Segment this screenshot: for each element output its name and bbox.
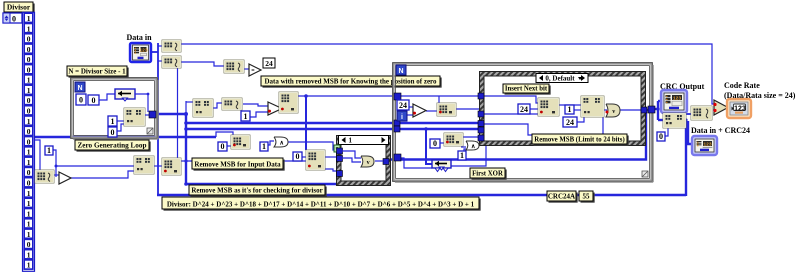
- svg-text:1: 1: [244, 112, 248, 121]
- svg-text:24: 24: [265, 59, 273, 68]
- svg-text:0, Default: 0, Default: [545, 75, 575, 83]
- svg-text:1: 1: [262, 142, 266, 151]
- svg-text:1: 1: [27, 76, 31, 85]
- svg-text:First XOR: First XOR: [472, 170, 503, 177]
- svg-text:1: 1: [460, 151, 464, 160]
- svg-text:Remove MSB for Input Data: Remove MSB for Input Data: [194, 160, 281, 168]
- svg-text:123: 123: [734, 106, 746, 113]
- svg-text:∧: ∧: [471, 144, 475, 150]
- svg-text:1: 1: [27, 199, 31, 208]
- svg-text:1: 1: [27, 250, 31, 259]
- svg-text:0: 0: [433, 139, 437, 148]
- svg-text:v: v: [367, 160, 370, 166]
- svg-text:55: 55: [583, 192, 591, 200]
- svg-text:v: v: [612, 109, 615, 115]
- svg-text:i: i: [401, 114, 403, 121]
- svg-text:123: 123: [673, 95, 682, 101]
- svg-text:0: 0: [12, 14, 16, 23]
- svg-text:1: 1: [27, 189, 31, 198]
- svg-text:1: 1: [27, 261, 31, 270]
- svg-text:1: 1: [27, 148, 31, 157]
- svg-text:0: 0: [296, 152, 300, 161]
- svg-text:0: 0: [27, 137, 31, 146]
- svg-text:0: 0: [27, 240, 31, 249]
- svg-text:N = Divisor Size - 1: N = Divisor Size - 1: [68, 67, 126, 75]
- svg-text:CRC24A: CRC24A: [548, 192, 575, 200]
- svg-text:0: 0: [27, 178, 31, 187]
- svg-text:1: 1: [568, 105, 572, 114]
- svg-text:1: 1: [27, 86, 31, 95]
- svg-text:Insert Next bit: Insert Next bit: [505, 85, 548, 92]
- svg-text:1: 1: [27, 220, 31, 229]
- svg-text:0: 0: [27, 96, 31, 105]
- svg-text:0: 0: [111, 128, 115, 137]
- svg-text:N: N: [77, 85, 82, 92]
- svg-text:1: 1: [27, 230, 31, 239]
- svg-text:0: 0: [659, 132, 663, 141]
- svg-text:Data with removed MSB for Know: Data with removed MSB for Knowing the po…: [264, 77, 437, 85]
- svg-text:0: 0: [27, 65, 31, 74]
- svg-text:=: =: [251, 69, 255, 75]
- svg-text:Data in + CRC24: Data in + CRC24: [691, 126, 750, 135]
- svg-text:∧: ∧: [279, 140, 283, 146]
- svg-text:Zero Generating Loop: Zero Generating Loop: [78, 141, 147, 149]
- svg-text:1: 1: [27, 158, 31, 167]
- svg-text:1: 1: [349, 137, 353, 145]
- svg-text:Divisor: Divisor: [7, 2, 31, 11]
- svg-text:N: N: [398, 68, 403, 75]
- svg-text:24: 24: [566, 118, 574, 127]
- svg-text:0: 0: [79, 96, 83, 105]
- svg-text:Code Rate: Code Rate: [724, 81, 760, 90]
- svg-text:1: 1: [27, 14, 31, 23]
- svg-text:123: 123: [139, 47, 148, 53]
- svg-text:Remove MSB as it's for checkin: Remove MSB as it's for checking for divi…: [191, 186, 322, 194]
- svg-text:0: 0: [27, 55, 31, 64]
- svg-text:Remove MSB (Limit to 24 bits): Remove MSB (Limit to 24 bits): [534, 136, 624, 143]
- svg-text:0: 0: [27, 107, 31, 116]
- svg-text:0: 0: [27, 127, 31, 136]
- svg-text:0: 0: [27, 35, 31, 44]
- svg-text:1: 1: [27, 117, 31, 126]
- svg-text:0: 0: [221, 142, 225, 151]
- svg-text:123: 123: [703, 141, 712, 147]
- svg-text:0: 0: [92, 96, 96, 105]
- svg-text:1: 1: [47, 146, 51, 155]
- svg-text:0: 0: [27, 45, 31, 54]
- svg-text:1: 1: [27, 24, 31, 33]
- svg-text:Divisor: D^24 + D^23 + D^18 +: Divisor: D^24 + D^23 + D^18 + D^17 + D^1…: [167, 200, 475, 208]
- svg-text:(Data/Rata size = 24): (Data/Rata size = 24): [724, 91, 796, 100]
- svg-text:24: 24: [520, 105, 528, 114]
- svg-text:Data in: Data in: [126, 33, 152, 42]
- svg-text:0: 0: [27, 168, 31, 177]
- svg-text:24: 24: [399, 101, 407, 110]
- svg-text:1: 1: [111, 117, 115, 126]
- svg-text:1: 1: [27, 209, 31, 218]
